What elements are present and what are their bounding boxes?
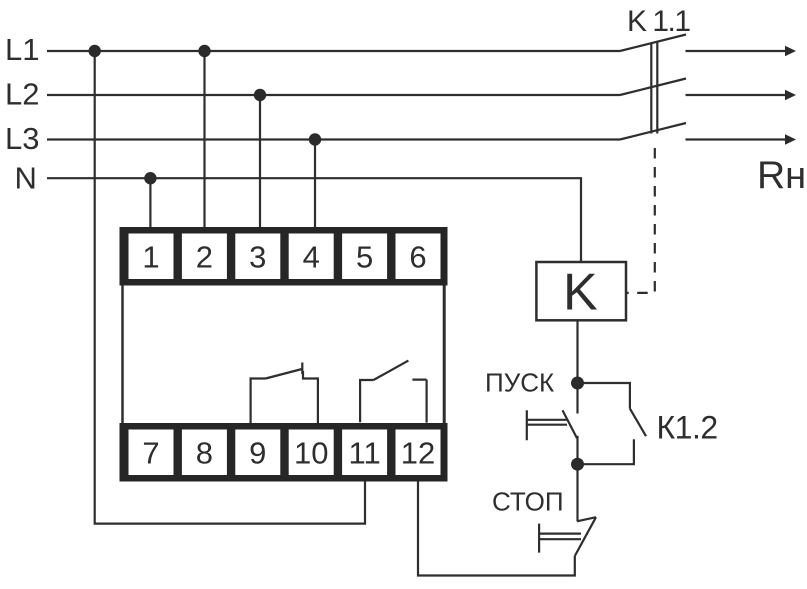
wire contact K1.2 lower lead	[578, 439, 634, 464]
svg-text:7: 7	[142, 436, 159, 471]
svg-text:ПУСК: ПУСК	[485, 368, 554, 398]
svg-text:4: 4	[303, 240, 320, 275]
button STOP contact seat	[577, 517, 596, 521]
terminal row 7-12	[120, 423, 448, 482]
svg-text:СТОП: СТОП	[492, 487, 564, 517]
node L3 junction	[309, 133, 321, 145]
node PUSK upper junction	[571, 377, 584, 390]
svg-text:1: 1	[142, 240, 159, 275]
node L1-terminal2 junction	[198, 45, 210, 57]
wire L3 drop to terminal 4	[314, 140, 316, 228]
device body right edge	[443, 286, 446, 424]
button PUSK blade	[563, 410, 578, 438]
svg-text:5: 5	[356, 240, 373, 275]
dashed mechanical link to coil	[627, 148, 655, 293]
device body left edge	[121, 286, 124, 424]
svg-text:2: 2	[196, 240, 213, 275]
terminal row 1-6	[120, 227, 448, 286]
arrow L1	[785, 46, 796, 56]
wire L2 drop to terminal 3	[259, 95, 261, 227]
button PUSK plunger	[527, 410, 567, 440]
svg-text:6: 6	[409, 240, 426, 275]
wire L3 incoming	[47, 138, 620, 140]
svg-text:12: 12	[401, 436, 435, 471]
svg-text:N: N	[15, 161, 37, 196]
contact K1.2 blade	[630, 409, 646, 437]
contact K1.1 pole L1	[620, 35, 686, 52]
node N junction	[144, 172, 156, 184]
wire L1 incoming	[47, 50, 620, 52]
wire L1 drop to terminal 2	[203, 51, 205, 227]
button STOP blade	[575, 517, 596, 556]
pin numbers 1-6	[142, 240, 426, 275]
wire L2 outgoing	[686, 94, 787, 96]
svg-text:K 1.1: K 1.1	[627, 5, 690, 38]
wire N incoming to coil K	[47, 178, 581, 262]
arrow L2	[785, 90, 796, 100]
svg-text:К1.2: К1.2	[657, 410, 718, 446]
wire L1 bypass to terminal 11	[95, 51, 365, 524]
node L1-bypass junction	[89, 45, 101, 57]
coil K box	[536, 262, 626, 320]
wire button STOP to terminal 12	[418, 481, 575, 576]
wire N drop to terminal 1	[149, 178, 151, 227]
node L2 junction	[254, 89, 266, 101]
wire L3 outgoing	[686, 138, 787, 140]
pin numbers 7-12	[142, 436, 435, 471]
node PUSK lower junction	[571, 458, 584, 471]
svg-text:3: 3	[249, 240, 266, 275]
svg-text:K: K	[563, 264, 598, 322]
svg-text:10: 10	[294, 436, 328, 471]
button STOP plunger	[539, 524, 581, 553]
wire coil K to node PUSK	[576, 320, 578, 413]
svg-text:L3: L3	[5, 121, 39, 156]
wire L2 incoming	[47, 94, 620, 96]
arrow L3	[785, 134, 796, 144]
contact K1.1 pole L3	[620, 123, 686, 140]
wire L1 outgoing	[686, 50, 787, 52]
wire node lower to button STOP	[576, 464, 578, 521]
svg-text:Rн: Rн	[757, 154, 806, 197]
wire node lower to button PUSK	[576, 436, 578, 464]
svg-text:L2: L2	[5, 77, 39, 112]
svg-text:9: 9	[249, 436, 266, 471]
svg-text:8: 8	[196, 436, 213, 471]
svg-text:11: 11	[349, 436, 381, 471]
wire node PUSK to contact K1.2	[578, 383, 630, 409]
relay contact 11-12	[360, 361, 427, 423]
contact K1.1 pole L2	[620, 79, 686, 96]
contactor K1.1 linkage bar	[651, 43, 657, 134]
relay contact 9-10	[251, 363, 318, 425]
svg-text:L1: L1	[5, 32, 39, 67]
